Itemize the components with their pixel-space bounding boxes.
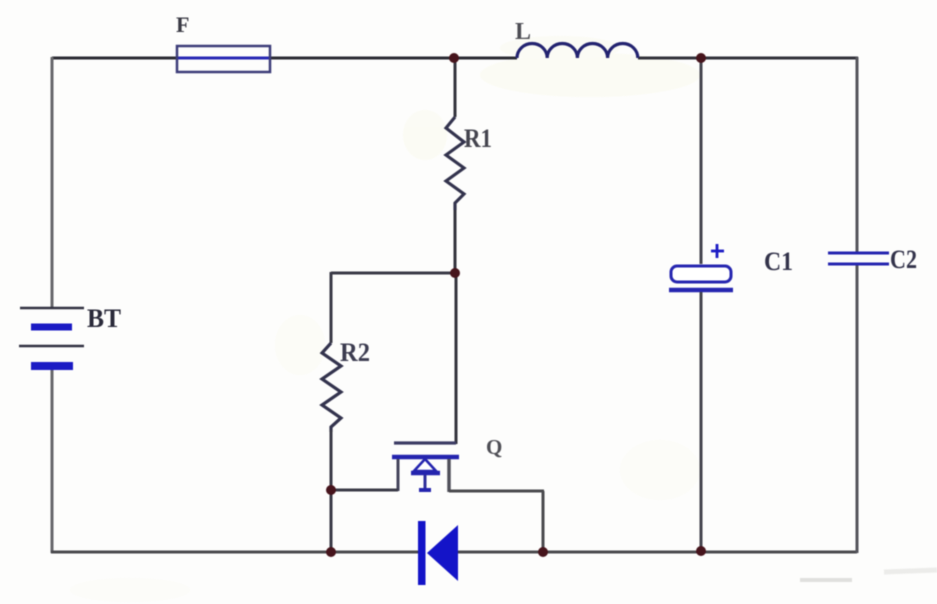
wire: bottom horizontal left segment (to diode) — [51, 551, 419, 554]
node: gate junction — [326, 485, 336, 495]
wire: drain vertical (junction to MOSFET) — [455, 273, 458, 444]
wire: left vertical upper (top corner to battery) — [51, 57, 54, 308]
resistor R2 — [322, 272, 341, 553]
faint watermark smudge bottom right — [800, 578, 852, 582]
svg-text:R2: R2 — [340, 338, 370, 367]
battery BT — [19, 308, 84, 366]
transistor Q (MOSFET) — [392, 443, 459, 492]
svg-text:C2: C2 — [890, 245, 917, 274]
wire: right vertical lower (C2 to bottom corner) — [856, 265, 859, 553]
resistor R1 — [446, 58, 464, 273]
wire: horizontal feed to R2 — [331, 272, 456, 275]
node: top junction at C1 — [696, 53, 706, 63]
wire: bottom horizontal right segment (diode to right corner) — [457, 551, 857, 554]
svg-text:F: F — [176, 12, 189, 37]
wire: C1 branch upper — [700, 57, 703, 264]
wire: top horizontal inductor to right corner — [638, 57, 858, 60]
node: junction below R1 — [450, 268, 460, 278]
svg-text:C1: C1 — [764, 247, 793, 276]
wire: left vertical lower (battery to bottom corner) — [51, 368, 54, 553]
node: top junction at R1 — [449, 53, 459, 63]
wire: top horizontal fuse to inductor — [270, 57, 517, 60]
svg-text:Q: Q — [486, 435, 502, 459]
svg-text:BT: BT — [87, 304, 121, 333]
wire: gate horizontal (R2 to MOSFET) — [331, 489, 398, 492]
capacitor C1 — [669, 244, 733, 290]
svg-text:R1: R1 — [464, 124, 492, 153]
wire: top horizontal from left corner to fuse — [52, 57, 177, 60]
faint warm jpeg tint blobs (background texture) — [70, 36, 700, 602]
diode D — [418, 521, 458, 585]
svg-text:L: L — [515, 19, 531, 45]
capacitor C2 — [828, 253, 889, 264]
node: bottom junction at source — [538, 547, 548, 557]
inductor L — [517, 43, 638, 58]
wire: source vertical drop to bottom — [542, 491, 545, 553]
wire: source horizontal (MOSFET to drop) — [449, 490, 544, 493]
node: bottom junction at C1 — [696, 546, 706, 556]
node: bottom junction at R2 — [326, 547, 336, 557]
wire: right vertical upper (top corner to C2) — [856, 57, 859, 252]
wire: C1 branch lower — [700, 292, 703, 553]
fuse F — [177, 46, 270, 72]
